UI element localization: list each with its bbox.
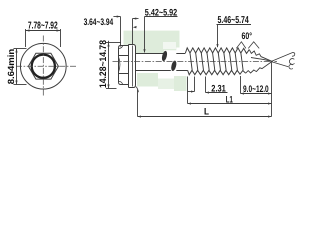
dim 5.42~5.92 leader xyxy=(145,17,178,53)
hex-flange boundary xyxy=(128,45,130,88)
dim L1 xyxy=(188,63,272,117)
dim 2.31 xyxy=(188,77,228,93)
hex facet line lower xyxy=(119,73,129,75)
thread helix lines xyxy=(190,53,243,70)
head top edge with corner xyxy=(119,46,129,48)
svg-text:5.42~5.92: 5.42~5.92 xyxy=(145,8,177,19)
dim 7.78~7.92 dimension line xyxy=(26,30,61,32)
left view: hexagon xyxy=(28,53,58,79)
chip curl loop 2 xyxy=(289,64,293,69)
left view: inner chamfer circle thick xyxy=(32,55,55,78)
arrows for 7.78~7.92 xyxy=(15,29,60,84)
watermark logo inner white notch xyxy=(163,42,176,49)
watermark logo green block top band xyxy=(124,31,180,48)
shank top edge right segment xyxy=(176,53,185,55)
hex facet chamfer arc top xyxy=(118,46,122,48)
dim 9.0~12.0 xyxy=(241,76,272,94)
watermark logo green bottom-right block xyxy=(174,76,187,91)
break symbol upper blob xyxy=(161,50,168,61)
hex facet chamfer arc bottom xyxy=(118,82,122,84)
chip curl upper line xyxy=(272,53,295,62)
svg-text:7.78~7.92: 7.78~7.92 xyxy=(28,21,58,32)
left view centerline horizontal xyxy=(16,65,76,67)
flange outline xyxy=(129,45,136,88)
white fill shank right segment and thread body xyxy=(176,54,246,71)
hex facet line upper xyxy=(119,55,129,57)
chip curl loop 1 xyxy=(289,59,294,65)
break symbol lower blob xyxy=(170,60,177,71)
drill point flute line xyxy=(251,58,272,62)
watermark logo green gap strip xyxy=(164,48,176,51)
dim 7.78~7.92 extension lines xyxy=(25,29,27,47)
shank bottom edge right segment xyxy=(176,70,187,72)
screw axis centerline xyxy=(113,61,278,63)
svg-text:2.31: 2.31 xyxy=(211,84,226,95)
svg-text:60°: 60° xyxy=(242,31,253,42)
dim 8.64min extension lines xyxy=(14,48,27,50)
svg-text:8.64min: 8.64min xyxy=(6,49,16,85)
watermark logo green bottom-middle strip xyxy=(158,79,174,90)
white fill shank left segment xyxy=(136,54,165,71)
dim 5.46~5.74 leader xyxy=(217,25,252,48)
svg-text:L1: L1 xyxy=(226,95,233,106)
head bottom edge with corner xyxy=(119,83,129,85)
drill point cone xyxy=(246,50,272,74)
shank top edge left segment xyxy=(136,53,165,55)
dim 3.64~3.94 xyxy=(113,17,138,47)
svg-text:14.28~14.78: 14.28~14.78 xyxy=(98,40,109,88)
shank bottom edge left segment xyxy=(136,70,171,72)
left view: flange outer circle xyxy=(20,43,66,89)
head left face xyxy=(118,47,120,82)
threads bottom zigzag xyxy=(188,70,246,74)
flange inner face line xyxy=(132,46,134,87)
svg-text:5.46~5.74: 5.46~5.74 xyxy=(218,15,250,26)
dim 14.28~14.78 xyxy=(106,41,121,89)
dim L xyxy=(138,90,272,117)
60 degree thread angle peaks xyxy=(236,42,259,49)
svg-text:9.0~12.0: 9.0~12.0 xyxy=(243,84,269,95)
hex facet chamfer arc middle xyxy=(118,56,120,73)
left view centerline vertical xyxy=(42,36,44,97)
svg-text:L: L xyxy=(204,107,209,118)
white fill head and flange xyxy=(119,45,136,88)
threads top zigzag xyxy=(185,48,249,54)
side view head xyxy=(118,45,187,93)
dim 8.64min dimension line xyxy=(16,49,18,85)
chip curl lower line xyxy=(272,62,289,67)
flange washer face sweep xyxy=(136,87,139,93)
watermark logo green bottom-left block xyxy=(137,73,158,87)
svg-text:3.64~3.94: 3.64~3.94 xyxy=(84,17,114,28)
watermark logo green mid-left band xyxy=(124,48,165,54)
